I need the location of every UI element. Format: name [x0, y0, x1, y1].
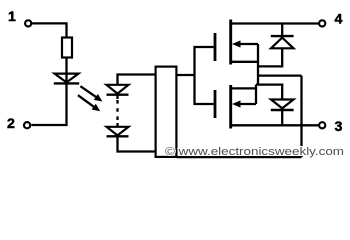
- Q1 body arrow: [232, 40, 258, 47]
- driver block U1: [156, 67, 177, 157]
- photodiode PD1: [107, 85, 129, 95]
- terminal pin 3: [319, 122, 325, 128]
- gate bus wire: [178, 47, 214, 104]
- transistor Q1 channel: [229, 20, 232, 65]
- light arrow a: [80, 86, 102, 101]
- wire photodiode stack to driver bottom: [118, 136, 156, 152]
- wire Q2 drain to pin 3: [231, 124, 319, 126]
- wire Q1 drain to pin 4: [231, 22, 319, 24]
- dashed stack link: [116, 95, 118, 127]
- wire photodiode stack to driver top: [118, 75, 156, 86]
- svg-text:2: 2: [7, 116, 15, 132]
- svg-text:1: 1: [8, 9, 16, 25]
- driver return wire: [177, 156, 302, 158]
- junction vertical Q2: [255, 85, 257, 104]
- wire pin1 to resistor: [32, 23, 67, 36]
- photodiode PD2: [107, 127, 129, 137]
- resistor R1: [62, 38, 72, 58]
- common source wire: [258, 74, 302, 76]
- diode D3: [271, 36, 294, 48]
- Q2 body arrow: [232, 100, 256, 107]
- terminal pin 4: [319, 20, 325, 26]
- Q2 source stub: [231, 87, 256, 89]
- wire D3 cathode to rail: [281, 24, 283, 36]
- LED D1: [54, 74, 79, 84]
- terminal pin 2: [24, 122, 30, 128]
- gate bar Q1: [214, 33, 217, 61]
- terminal pin 1: [25, 20, 31, 26]
- light arrow b: [78, 95, 100, 111]
- svg-text:4: 4: [335, 11, 343, 27]
- wire common to D4: [256, 85, 282, 100]
- svg-text:© www.electronicsweekly.com: © www.electronicsweekly.com: [165, 146, 344, 158]
- wire resistor to LED and down to pin2: [31, 58, 66, 125]
- return rail: [300, 76, 302, 158]
- wire to diode D3 anode: [258, 48, 282, 66]
- svg-text:3: 3: [335, 119, 343, 135]
- Q1 source stub: [231, 61, 258, 63]
- junction vertical Q1: [257, 44, 259, 85]
- gate bar Q2: [214, 90, 217, 118]
- transistor Q2 channel: [229, 85, 232, 129]
- wire D4 cathode to pin3 rail: [281, 110, 283, 125]
- diode D4: [271, 100, 294, 111]
